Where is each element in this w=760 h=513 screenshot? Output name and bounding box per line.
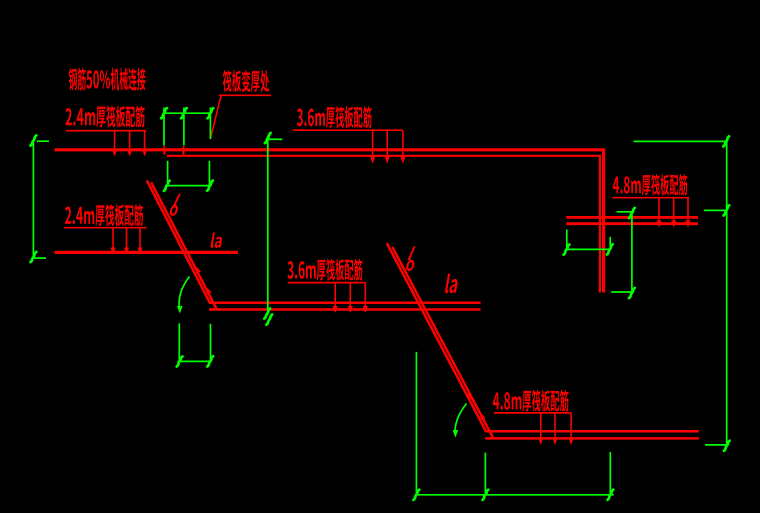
underline: 4.8m label right <box>613 197 690 199</box>
label: la second <box>445 274 460 293</box>
wire: 2.4m slab lower rebar line <box>55 251 239 254</box>
dim: below 4.8m top slab <box>565 230 611 250</box>
dim: long vertical extension at x=268 <box>268 136 283 316</box>
wire: bent rebar C (4.8m lower line + diagonal up-left) <box>387 243 699 431</box>
dim: below-line dimension at thickness step <box>165 161 212 186</box>
arrowhead on diagonal rebar 2 <box>203 285 211 294</box>
arrowhead on diagonal rebar 3 <box>465 391 473 400</box>
wire: bent rebar B diagonal <box>151 182 217 309</box>
wire: bent rebar D lower horizontal <box>485 437 699 440</box>
arc: bend arrow at second bend <box>455 404 466 436</box>
underline: 2.4m label second <box>64 227 147 229</box>
dim: below first bend <box>178 323 212 361</box>
underline: 4.8m label bottom <box>494 412 572 414</box>
rebar ticks 3.6m second <box>333 283 368 313</box>
leader: 筏板变厚处 pointer line <box>210 96 221 140</box>
dim: left vertical between slab lines <box>33 140 49 259</box>
label: 4.8m厚筏板配筋 bottom <box>493 390 569 412</box>
wire: bent rebar A (3.6m lower line + diagonal up-left) <box>147 181 481 303</box>
wire: top slab outer rebar line (2.4m->3.6m top, turns down at right) <box>55 150 604 293</box>
label: 3.6m厚筏板配筋 top <box>297 106 372 128</box>
rebar ticks 3.6m top <box>370 131 406 164</box>
wire: 4.8m slab upper rebar line 2 <box>566 222 698 225</box>
label: 2.4m厚筏板配筋 second <box>65 204 143 226</box>
wire: 4.8m slab upper rebar line 1 <box>566 216 698 219</box>
label: lo on first diagonal <box>172 194 182 208</box>
arrowhead on diagonal rebar 4 <box>477 411 485 420</box>
underline: note 筏板变厚处 <box>219 94 271 96</box>
label: la first <box>210 232 223 247</box>
tick: step mark 2 on top line <box>182 146 184 154</box>
label: 3.6m厚筏板配筋 second <box>288 259 363 281</box>
underline: 3.6m label top <box>293 129 403 131</box>
dim: bottom horizontal chain <box>415 352 614 495</box>
rebar ticks 2.4m top-left <box>112 131 147 157</box>
underline: 2.4m label top-left <box>66 130 146 132</box>
arc: bend arrow at first bend <box>179 277 189 312</box>
label: 4.8m厚筏板配筋 right <box>613 174 688 195</box>
wire: bent rebar D diagonal <box>392 247 493 438</box>
rebar ticks 4.8m bottom <box>538 413 574 445</box>
rebar ticks 2.4m second <box>110 228 142 254</box>
dim: tall right vertical <box>634 141 728 448</box>
label: 钢筋50%机械连接 <box>69 68 146 91</box>
dim: vertical at x=632 (step down to 4.8m slab) <box>611 212 633 295</box>
tick: step mark 1 on top line <box>163 146 165 154</box>
wire: bent rebar B lower horizontal <box>209 308 481 311</box>
dim: above-line dimension at thickness step <box>164 108 211 146</box>
underline: 3.6m label second <box>288 282 366 284</box>
label: 筏板变厚处 <box>223 70 270 92</box>
label: 2.4m厚筏板配筋 top-left <box>65 106 144 128</box>
wire: top slab inner rebar line (starts at thickness step, turns down) <box>167 156 600 293</box>
label: lo on second diagonal <box>407 246 417 260</box>
rebar ticks 4.8m right <box>656 198 690 227</box>
arrowhead on diagonal rebar 1 <box>193 264 201 273</box>
